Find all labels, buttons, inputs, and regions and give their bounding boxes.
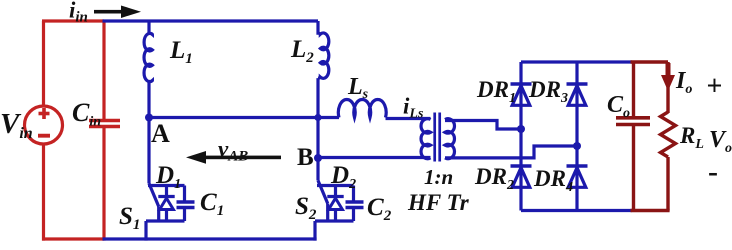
svg-text:B: B	[297, 144, 314, 171]
svg-text:+: +	[707, 71, 723, 102]
svg-text:A: A	[151, 119, 170, 148]
svg-text:HF Tr: HF Tr	[407, 190, 470, 215]
svg-text:1:n: 1:n	[424, 165, 453, 189]
svg-text:-: -	[708, 155, 718, 188]
